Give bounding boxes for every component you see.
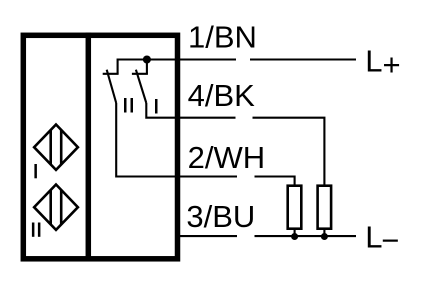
svg-text:4/BK: 4/BK [188,78,256,113]
svg-text:L: L [365,220,382,255]
svg-text:3/BU: 3/BU [186,199,255,234]
svg-text:1/BN: 1/BN [188,20,257,55]
svg-text:2/WH: 2/WH [188,140,266,175]
svg-text:L: L [365,43,382,78]
svg-text:+: + [383,47,401,82]
svg-text:−: − [381,223,399,258]
